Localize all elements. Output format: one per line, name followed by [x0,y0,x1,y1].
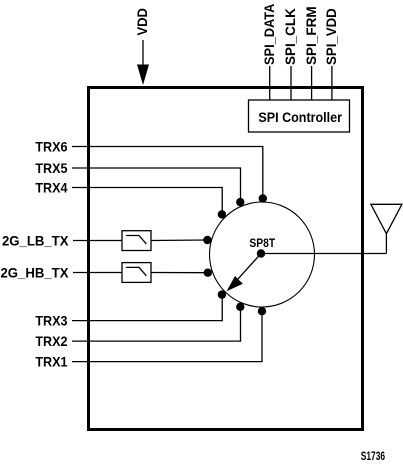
svg-text:SPI Controller: SPI Controller [258,110,342,126]
svg-text:SPI_VDD: SPI_VDD [324,8,339,65]
svg-text:TRX4: TRX4 [35,180,68,196]
svg-text:S1736: S1736 [361,451,385,464]
svg-text:TRX1: TRX1 [35,354,67,370]
svg-text:TRX6: TRX6 [35,139,67,155]
svg-text:2G_HB_TX: 2G_HB_TX [0,265,68,280]
svg-text:TRX3: TRX3 [35,313,67,329]
svg-text:SPI_FRM: SPI_FRM [304,6,319,65]
svg-text:TRX2: TRX2 [35,334,67,350]
svg-text:2G_LB_TX: 2G_LB_TX [2,233,69,248]
svg-text:SPI_DATA: SPI_DATA [261,3,277,65]
svg-text:VDD: VDD [135,8,151,36]
svg-text:TRX5: TRX5 [35,160,67,176]
svg-text:SPI_CLK: SPI_CLK [283,8,298,65]
svg-text:SP8T: SP8T [249,237,275,250]
